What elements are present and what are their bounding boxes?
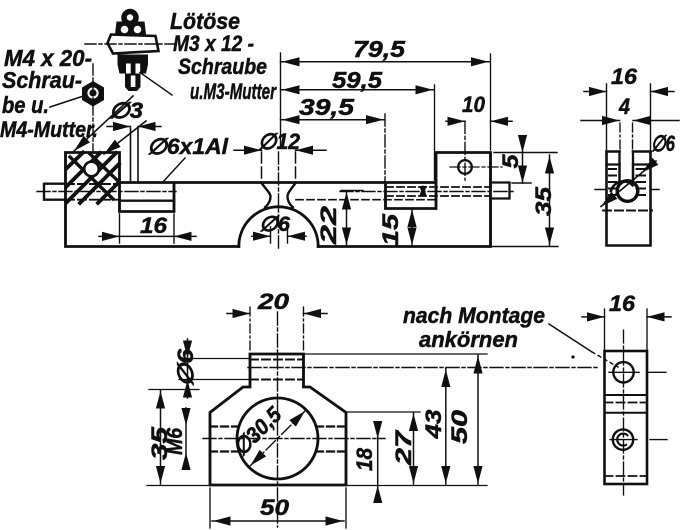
dimension phi6 in arch: [271, 227, 288, 243]
hidden slot floor line: [603, 210, 652, 212]
tube centerline right: [340, 191, 515, 193]
dimension 5: [494, 153, 557, 184]
stray mark: [571, 355, 574, 358]
svg-text:ankörnen: ankörnen: [419, 327, 518, 352]
tube diameter tiny arrows: [420, 185, 427, 198]
clamp bore circle phi30,5: [237, 398, 318, 479]
dimension 59,5: [434, 85, 436, 180]
dimension 35 right: [549, 155, 551, 246]
slot walls: [620, 165, 634, 182]
tube centerline left: [37, 191, 176, 193]
svg-text:∅6: ∅6: [173, 348, 198, 387]
M3 screw thread end: [125, 74, 141, 92]
bracket side-view outline: [66, 153, 491, 247]
svg-text:M6: M6: [162, 427, 187, 455]
svg-text:Schraube: Schraube: [178, 54, 267, 79]
dimension 22: [341, 190, 363, 192]
svg-text:16: 16: [611, 64, 638, 89]
arch cutout: [239, 207, 318, 247]
svg-text:be u.: be u.: [2, 92, 49, 118]
svg-text:∅6: ∅6: [259, 213, 290, 236]
small hole in right block: [458, 160, 472, 174]
vertical centerline of phi12 hole: [278, 152, 280, 250]
block vertical centerline: [277, 312, 279, 527]
svg-text:nach Montage: nach Montage: [403, 303, 545, 328]
dimension 16 bottom view: [605, 309, 648, 350]
svg-text:∅12: ∅12: [258, 129, 301, 154]
solder lug crimp: [115, 22, 146, 35]
bracket arm cross bar: [108, 35, 159, 54]
solder lug ring: [124, 12, 136, 24]
svg-text:18: 18: [352, 447, 377, 471]
boss hole hidden lines: [250, 360, 304, 380]
svg-text:79,5: 79,5: [353, 36, 406, 62]
dimension 39,5: [384, 114, 386, 182]
dimension phi3: [107, 126, 161, 128]
dimension 43: [445, 369, 447, 485]
dimension 18: [377, 424, 379, 497]
waist curves of phi6 slot: [262, 183, 296, 207]
dimension 10: [464, 121, 466, 180]
tube cross-section circle: [617, 181, 638, 202]
clamp block hole: [84, 162, 99, 177]
vertical centerline: [623, 330, 625, 495]
svg-text:59,5: 59,5: [332, 67, 383, 93]
dimension 27: [347, 411, 420, 413]
clamp block hatching: [67, 153, 119, 204]
svg-text:Schrau-: Schrau-: [2, 67, 82, 93]
leader from Loetoese to clamp: [74, 96, 133, 151]
dimension M6: [185, 408, 187, 469]
svg-text:M3 x 12 -: M3 x 12 -: [173, 31, 254, 56]
tube hidden in clamp block: [66, 184, 119, 200]
svg-text:27: 27: [391, 429, 416, 467]
phi30,5 radial line and arrows: [251, 411, 306, 466]
svg-text:43: 43: [421, 410, 446, 440]
centerline ticks: [595, 189, 659, 191]
svg-text:u.M3-Mutter: u.M3-Mutter: [190, 79, 277, 104]
hidden line near bottom: [605, 475, 648, 477]
dimension 15: [411, 210, 413, 246]
dimension phi12: [234, 149, 326, 151]
svg-text:16: 16: [609, 291, 636, 316]
svg-text:16: 16: [140, 213, 168, 238]
tube bottom edge in left notch: [120, 200, 175, 202]
dimension phi6 bottom: [179, 359, 250, 380]
dimension 50 right: [304, 354, 487, 486]
phi12 hole extension lines: [262, 152, 296, 183]
leader to nut: [50, 97, 82, 108]
tube stub right end: [491, 183, 510, 199]
dimension 50 bottom: [210, 488, 346, 528]
dimension 4: [620, 123, 633, 150]
end view outline: [607, 152, 651, 246]
tube axis centerline across views: [248, 367, 597, 369]
dimension 20: [250, 307, 304, 352]
leader from phi3 to clamp: [104, 121, 146, 154]
svg-text:15: 15: [378, 213, 403, 246]
svg-text:22: 22: [316, 205, 341, 246]
tube hidden lines right section: [386, 187, 490, 196]
svg-text:∅6: ∅6: [651, 131, 676, 156]
dimension 16 left notch: [120, 214, 175, 243]
M6 hole hidden lines: [210, 427, 346, 452]
slot wall hatch dashes: [609, 169, 645, 195]
slot bottom U: [611, 181, 633, 191]
svg-text:M4-Mutter.: M4-Mutter.: [0, 117, 98, 142]
svg-text:50: 50: [260, 495, 290, 520]
svg-text:20: 20: [257, 289, 290, 314]
svg-text:5: 5: [498, 154, 523, 169]
svg-text:10: 10: [462, 92, 486, 117]
phi3 hole lines: [131, 128, 139, 183]
M6 threaded hole: [613, 429, 633, 449]
tube stub left: [44, 184, 66, 200]
M4 screw centerline: [92, 64, 94, 151]
M3 nut under bar: [118, 55, 149, 74]
svg-text:39,5: 39,5: [299, 94, 355, 120]
dimension 79,5: [280, 53, 282, 148]
punch-mark hole: [613, 362, 633, 382]
dimension 35 bottom: [147, 390, 210, 486]
bore horizontal centerline: [203, 438, 385, 440]
M4 nut: [82, 81, 104, 107]
mid chamfer lines: [605, 395, 648, 413]
svg-text:35: 35: [531, 186, 556, 216]
svg-text:∅6x1Al: ∅6x1Al: [147, 134, 229, 159]
bottom end view outline: [605, 351, 648, 484]
clamp block outline: [210, 354, 346, 485]
slot wall squares: [607, 152, 651, 165]
dimension 16 end view: [607, 84, 651, 150]
tube bottom hidden right of arch: [296, 199, 436, 201]
svg-text:4: 4: [618, 94, 630, 119]
svg-text:50: 50: [447, 409, 472, 444]
leader from M3 label to screw: [140, 73, 172, 96]
